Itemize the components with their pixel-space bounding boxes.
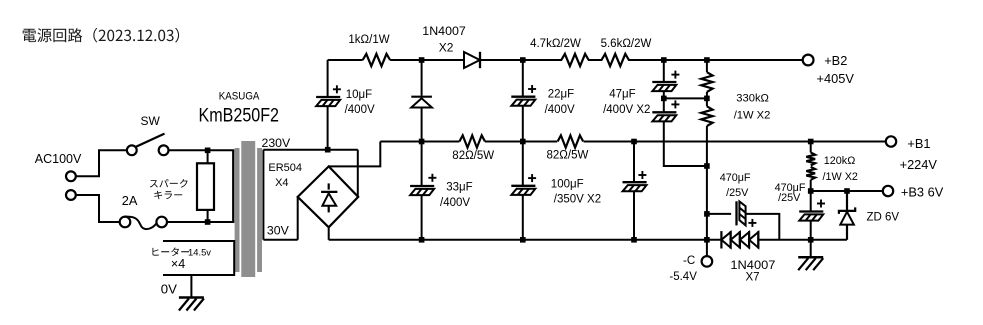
switch SW contact right <box>159 145 169 155</box>
wire spark-killer top lead <box>207 150 209 163</box>
label ×4 <box>171 257 185 271</box>
svg-text:KASUGA: KASUGA <box>219 91 260 103</box>
svg-text:14.5v: 14.5v <box>188 248 211 259</box>
svg-text:4.7kΩ/2W: 4.7kΩ/2W <box>530 38 581 50</box>
transformer secondary winding <box>262 150 264 240</box>
junction bottom right ground <box>808 237 814 243</box>
svg-text:ZD 6V: ZD 6V <box>867 212 900 224</box>
wire D2 top <box>421 60 423 96</box>
wire after diode string <box>758 239 847 241</box>
label +405V <box>817 71 855 86</box>
wire AC upper to SW <box>76 150 127 176</box>
wire top bus 3 <box>480 59 562 61</box>
wire C7 top <box>633 142 635 183</box>
node +B2 terminal <box>803 55 814 66</box>
wire C6 bottom <box>522 195 524 240</box>
capacitor C4a 47μF/400V <box>652 71 679 92</box>
wire C4 top <box>663 60 665 82</box>
transformer primary winding <box>232 150 234 222</box>
wire R7 top <box>810 142 812 153</box>
junction bottom bus C <box>631 237 637 243</box>
wire C7 bottom <box>633 191 635 240</box>
label 100μF <box>551 179 584 191</box>
junction top bus / C4 branch <box>661 57 667 63</box>
wire C6 top <box>522 142 524 186</box>
wire 30V tap <box>263 239 297 241</box>
label /350V X2 <box>554 194 601 206</box>
label 230V <box>262 136 292 150</box>
junction bottom bus A <box>419 237 425 243</box>
svg-text:470μF: 470μF <box>720 172 751 184</box>
wire C8 right <box>747 214 780 240</box>
bridge inner diode symbol <box>321 183 337 212</box>
label X2 D1 <box>439 41 454 55</box>
wire D2 to mid bus <box>421 108 423 142</box>
wire C5 top <box>421 142 423 187</box>
label 82Ω/5W R5 <box>452 150 494 162</box>
wire bridge DC- out <box>328 227 330 240</box>
wire C2 bottom <box>522 106 524 142</box>
svg-text:82Ω/5W: 82Ω/5W <box>452 150 494 162</box>
resistor R2 4.7kΩ/2W <box>561 54 588 66</box>
svg-text:120kΩ: 120kΩ <box>824 155 855 167</box>
label /1W X2 <box>734 110 771 122</box>
wire C5 bottom <box>421 195 423 240</box>
svg-text:100μF: 100μF <box>551 179 584 191</box>
capacitor C8 470μF/25V <box>737 201 757 227</box>
label 0V <box>161 281 177 296</box>
label 120kΩ <box>824 155 855 167</box>
resistor R4b 330kΩ/1W <box>701 106 712 126</box>
svg-text:/400V: /400V <box>440 197 470 209</box>
resistor R5 82Ω/5W <box>459 135 485 147</box>
label 47μF <box>609 88 635 100</box>
resistor R4a 330kΩ/1W <box>701 72 712 92</box>
switch SW contact left <box>127 145 137 155</box>
svg-text:SW: SW <box>141 114 161 128</box>
wire bottom bus <box>329 239 722 241</box>
diode string D3 1N4007 X7 <box>721 231 758 248</box>
wire spark-killer bottom lead <box>207 210 209 222</box>
junction C4 mid tie right <box>704 96 710 102</box>
wire top bus 2 <box>390 59 464 61</box>
node AC terminal upper <box>66 171 76 181</box>
wire R7 bottom <box>810 180 812 191</box>
capacitor C1 10μF/400V <box>316 85 341 106</box>
wire mid bus 3 <box>584 141 886 143</box>
junction mid bus / R7 branch <box>808 139 814 145</box>
svg-text:+405V: +405V <box>817 71 855 86</box>
label 33μF <box>446 182 472 194</box>
wire 230V to bridge AC right <box>357 150 359 197</box>
svg-text:1N4007: 1N4007 <box>422 24 466 38</box>
junction bottom bus B <box>520 237 526 243</box>
wire mid bus 2 <box>485 141 557 143</box>
label 10μF <box>346 89 372 101</box>
label ヒーター <box>153 248 190 257</box>
wire top bus 4 <box>588 59 602 61</box>
label /400V X2 <box>603 104 650 116</box>
zener ZD1 ZD 6V <box>839 191 855 240</box>
wire C9 bottom <box>810 220 812 257</box>
resistor R7a 120kΩ/1W <box>806 153 815 166</box>
label 470μF C9 <box>775 182 806 194</box>
transformer heater winding <box>163 241 234 275</box>
svg-text:22μF: 22μF <box>548 88 574 100</box>
svg-text:/1W X2: /1W X2 <box>823 171 858 183</box>
spark killer box <box>197 163 214 210</box>
svg-text:1kΩ/1W: 1kΩ/1W <box>348 34 389 46</box>
bridge rectifier ER504 X4 diamond <box>298 166 359 227</box>
junction mid bus C <box>631 139 637 145</box>
wire top bus left <box>328 59 363 61</box>
svg-text:47μF: 47μF <box>609 88 635 100</box>
svg-text:/1W X2: /1W X2 <box>734 110 771 122</box>
label 4.7kΩ/2W <box>530 38 581 50</box>
svg-text:230V: 230V <box>262 136 292 150</box>
wire C4 tie <box>664 97 707 99</box>
svg-text:2A: 2A <box>122 193 138 208</box>
node +B1 terminal <box>886 136 896 146</box>
label 30V <box>267 224 290 238</box>
switch SW lever <box>136 134 165 147</box>
label +B2 <box>824 53 847 68</box>
label 1N4007 D3 <box>730 258 775 272</box>
wire C8 left <box>707 213 731 215</box>
svg-text:/25V: /25V <box>726 187 749 199</box>
wire R4 mid <box>706 92 708 106</box>
resistor R1 1kΩ/1W <box>363 54 390 66</box>
svg-text:33μF: 33μF <box>446 182 472 194</box>
resistor R6 82Ω/5W <box>558 135 584 147</box>
capacitor C2 22μF/400V <box>511 85 536 106</box>
label 1kΩ/1W <box>348 34 389 46</box>
node AC terminal lower <box>66 190 76 200</box>
label /25V C9 <box>778 192 801 204</box>
label 1N4007 D1 <box>422 24 466 38</box>
resistor R3 5.6kΩ/2W <box>602 54 629 66</box>
wire C9 top <box>810 191 812 212</box>
label +B3 6V <box>901 185 944 200</box>
ground heater 0V <box>179 298 204 311</box>
junction top bus / D1 <box>419 57 425 63</box>
wire C1 branch top <box>327 60 329 97</box>
wire B3 line <box>811 190 883 192</box>
label SW <box>141 114 161 128</box>
wire SW to transformer <box>169 149 235 151</box>
label +224V <box>900 157 938 172</box>
label X4 <box>275 177 288 189</box>
svg-text:+B3 6V: +B3 6V <box>901 185 944 200</box>
svg-text:1N4007: 1N4007 <box>730 258 775 272</box>
label ER504 <box>268 162 302 174</box>
junction B3 / ZD <box>844 188 850 194</box>
wire heater 0V to ground <box>190 275 192 297</box>
node +B3 terminal <box>883 186 893 196</box>
label 330kΩ <box>736 93 769 105</box>
label KASUGA <box>219 91 260 103</box>
label -C <box>683 255 695 267</box>
svg-text:/400V: /400V <box>345 104 375 116</box>
svg-text:-5.4V: -5.4V <box>669 271 697 283</box>
wire 230V tap <box>263 149 357 151</box>
junction C4 mid tie left <box>661 96 667 102</box>
junction mid bus B <box>520 139 526 145</box>
label /400V C2 <box>545 104 575 116</box>
label +B1 <box>907 136 930 151</box>
capacitor C5 33μF/400V <box>410 174 436 195</box>
label KmB250F2 <box>199 106 280 127</box>
wire R4 top <box>706 60 708 72</box>
label /25V C8 <box>726 187 749 199</box>
label X7 <box>746 272 760 284</box>
label 14.5v <box>188 248 211 259</box>
svg-text:/350V X2: /350V X2 <box>554 194 601 206</box>
svg-text:KmB250F2: KmB250F2 <box>199 106 280 127</box>
label スパーク <box>150 179 188 188</box>
svg-text:/25V: /25V <box>778 192 801 204</box>
svg-text:+224V: +224V <box>900 157 938 172</box>
svg-text:ER504: ER504 <box>268 162 302 174</box>
svg-text:82Ω/5W: 82Ω/5W <box>547 150 589 162</box>
resistor R7b 120kΩ/1W <box>806 167 815 180</box>
junction top bus / R4 branch <box>704 57 710 63</box>
junction -C / bottom bus <box>704 237 710 243</box>
svg-text:/400V X2: /400V X2 <box>603 104 650 116</box>
svg-text:5.6kΩ/2W: 5.6kΩ/2W <box>601 38 652 50</box>
label 22μF <box>548 88 574 100</box>
label /1W X2 R7 <box>823 171 858 183</box>
svg-text:/400V: /400V <box>545 104 575 116</box>
junction B3 left <box>808 188 814 194</box>
svg-text:10μF: 10μF <box>346 89 372 101</box>
junction 230V tap / C1 branch <box>325 147 331 153</box>
svg-text:×4: ×4 <box>171 257 185 271</box>
label 82Ω/5W R6 <box>547 150 589 162</box>
node -C terminal <box>702 256 713 267</box>
wire C2 top <box>522 60 524 97</box>
junction top bus / C2 <box>520 57 526 63</box>
label 5.6kΩ/2W <box>601 38 652 50</box>
label /400V C1 <box>345 104 375 116</box>
title label 電源回路（2023.12.03） <box>23 28 179 43</box>
label 470μF C8 <box>720 172 751 184</box>
capacitor C7 100μF/350V <box>623 171 647 191</box>
diode D2 1N4007 <box>411 97 432 108</box>
label 2A <box>122 193 138 208</box>
junction mid bus A <box>419 139 425 145</box>
svg-text:+B1: +B1 <box>907 136 930 151</box>
fuse F1 2A <box>120 217 167 230</box>
diode D1 1N4007 <box>464 52 480 68</box>
label -5.4V <box>669 271 697 283</box>
wire top bus 5 <box>628 59 803 61</box>
label AC100V <box>35 151 82 166</box>
ground right <box>798 257 823 270</box>
svg-text:AC100V: AC100V <box>35 151 82 166</box>
wire -C vertical <box>706 166 708 256</box>
svg-text:30V: 30V <box>267 224 290 238</box>
junction primary top <box>205 148 211 154</box>
label キラー <box>154 191 182 199</box>
wire bridge DC+ out <box>329 142 381 167</box>
wire mid bus 1 <box>380 141 459 143</box>
wire C1 bottom <box>327 106 329 150</box>
transformer core bar center <box>241 141 255 277</box>
transformer core bar right <box>257 148 262 272</box>
wire C4b bottom <box>664 121 707 166</box>
wire 30V to bridge AC left <box>297 197 299 240</box>
label ZD 6V <box>867 212 900 224</box>
svg-text:X4: X4 <box>275 177 288 189</box>
svg-text:X2: X2 <box>439 41 454 55</box>
wire C4 mid <box>663 91 665 113</box>
wire fuse to transformer <box>167 221 234 223</box>
junction primary bottom <box>205 219 211 225</box>
svg-text:-C: -C <box>683 255 695 267</box>
capacitor C9 470μF/25V <box>799 200 825 221</box>
svg-text:X7: X7 <box>746 272 760 284</box>
transformer core bar left <box>235 148 240 272</box>
svg-text:0V: 0V <box>161 281 177 296</box>
junction node -C top <box>704 163 710 169</box>
wire R4b down <box>706 126 708 166</box>
capacitor C6 100μF/350V <box>511 174 536 195</box>
wire AC lower to fuse <box>76 195 120 222</box>
label /400V C5 <box>440 197 470 209</box>
capacitor C4b 47μF/400V <box>652 100 679 121</box>
svg-text:330kΩ: 330kΩ <box>736 93 769 105</box>
svg-text:+B2: +B2 <box>824 53 847 68</box>
junction -C / C8 branch <box>704 211 710 217</box>
